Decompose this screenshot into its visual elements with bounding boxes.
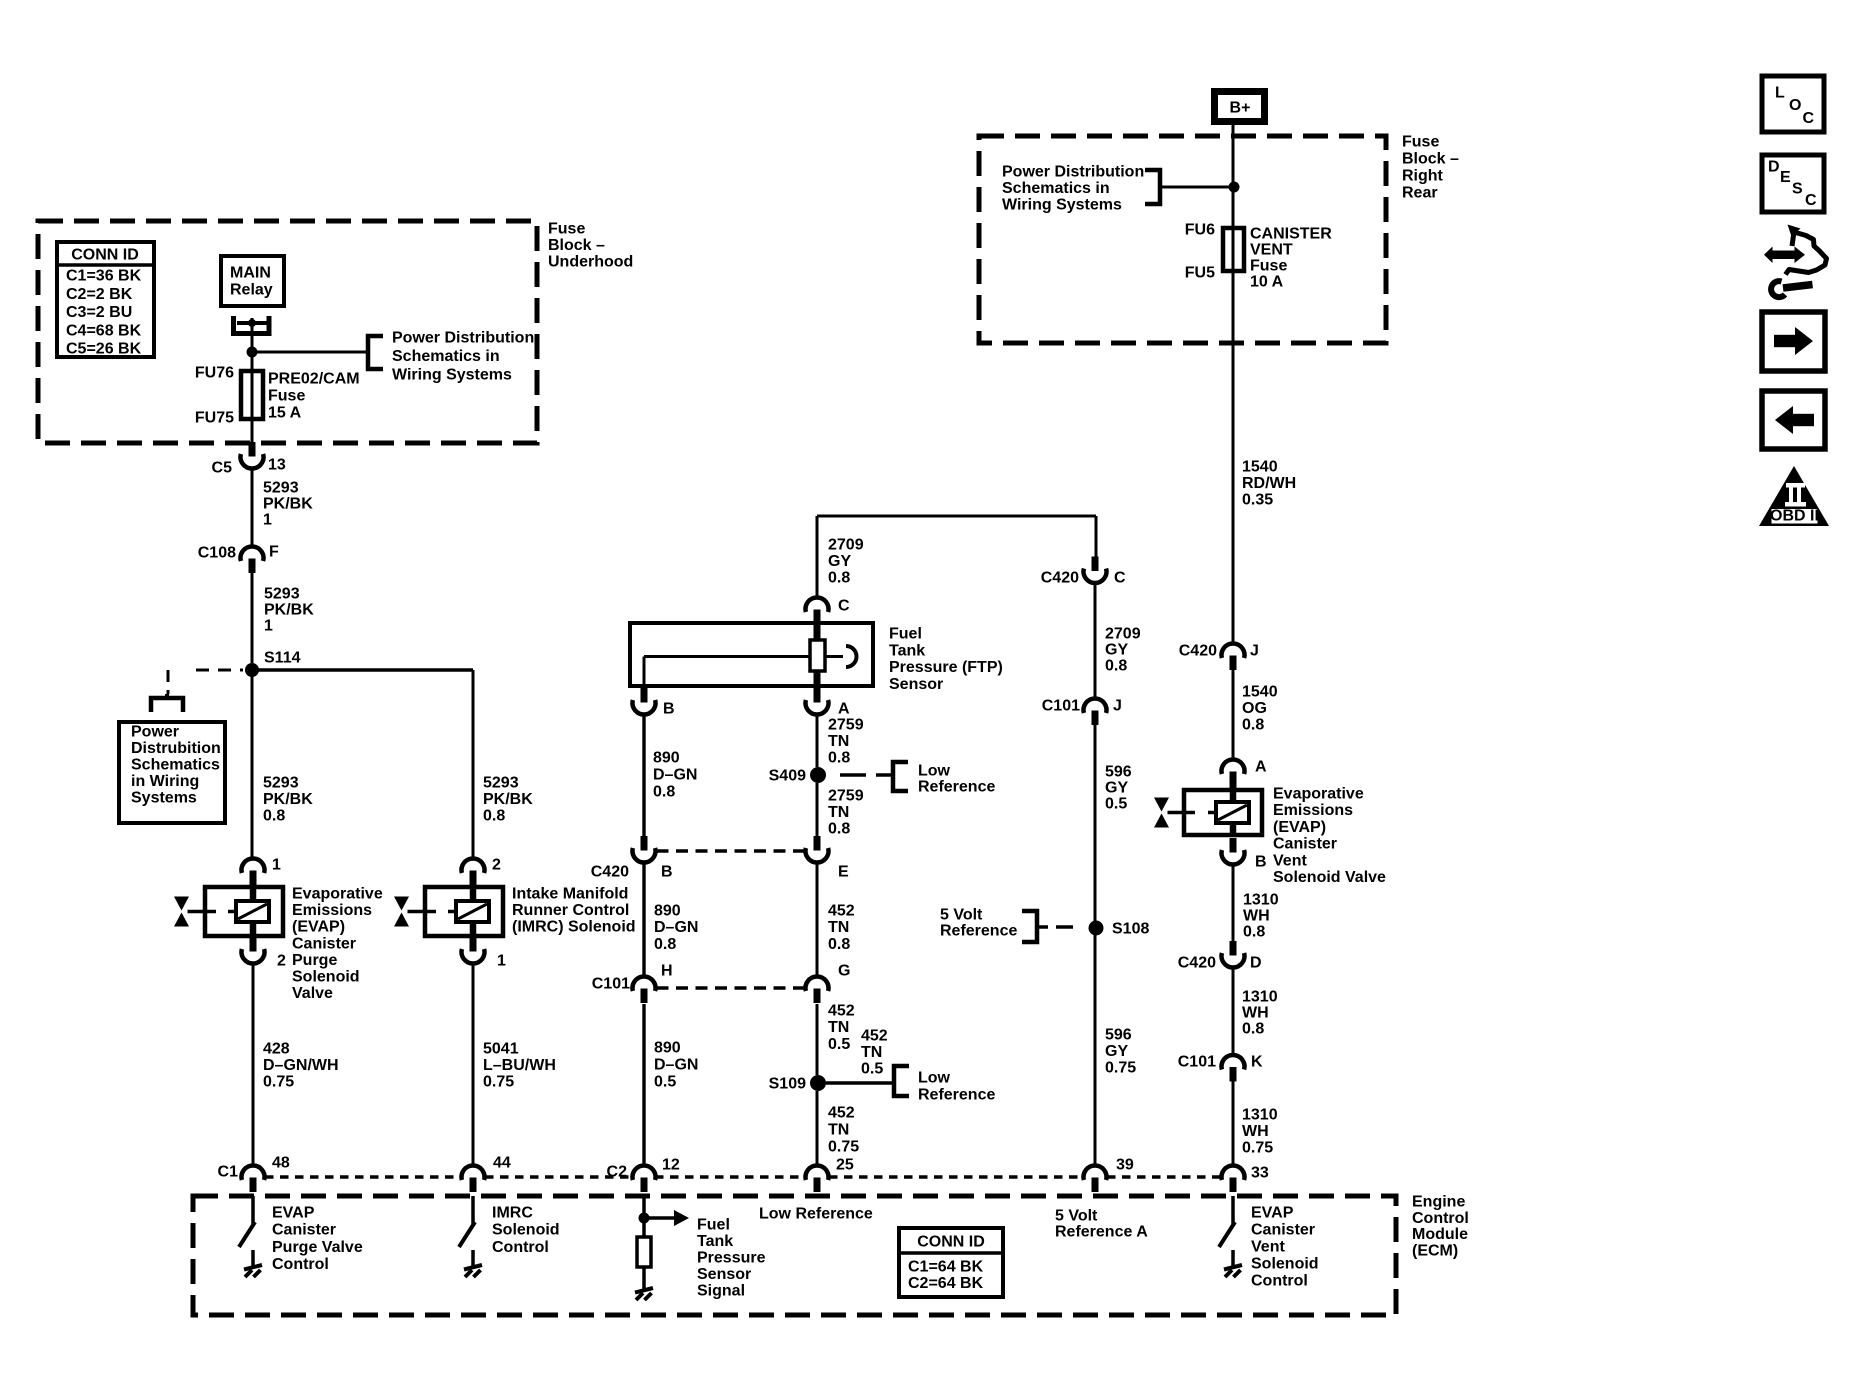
svg-text:Emissions: Emissions <box>1273 802 1353 819</box>
svg-text:D: D <box>1768 159 1780 176</box>
svg-text:0.8: 0.8 <box>828 821 850 838</box>
svg-text:1310: 1310 <box>1242 1107 1278 1124</box>
svg-text:Reference: Reference <box>918 779 995 796</box>
svg-text:1540: 1540 <box>1242 684 1278 701</box>
svg-text:428: 428 <box>263 1041 290 1058</box>
svg-text:890: 890 <box>653 750 680 767</box>
svg-text:1: 1 <box>497 953 506 970</box>
svg-text:1540: 1540 <box>1242 459 1278 476</box>
svg-text:C5=26 BK: C5=26 BK <box>66 341 142 358</box>
svg-text:Engine: Engine <box>1412 1194 1465 1211</box>
svg-text:Reference: Reference <box>918 1087 995 1104</box>
svg-text:0.5: 0.5 <box>1105 796 1127 813</box>
svg-text:G: G <box>838 963 850 980</box>
svg-text:WH: WH <box>1243 908 1270 925</box>
svg-text:Fuel: Fuel <box>889 626 922 643</box>
svg-text:TN: TN <box>828 1019 849 1036</box>
svg-text:0.8: 0.8 <box>653 784 675 801</box>
svg-text:S409: S409 <box>769 768 806 785</box>
svg-text:5293: 5293 <box>483 775 519 792</box>
svg-text:Solenoid: Solenoid <box>1251 1256 1319 1273</box>
svg-text:Reference: Reference <box>940 923 1017 940</box>
svg-text:5293: 5293 <box>264 586 300 603</box>
svg-text:TN: TN <box>828 733 849 750</box>
svg-text:WH: WH <box>1242 1123 1269 1140</box>
svg-text:O: O <box>1789 97 1801 114</box>
svg-text:0.8: 0.8 <box>1242 717 1264 734</box>
svg-text:5293: 5293 <box>263 480 299 497</box>
svg-text:C5: C5 <box>212 460 233 477</box>
svg-text:C101: C101 <box>1042 698 1080 715</box>
svg-text:Block –: Block – <box>548 237 605 254</box>
svg-text:C2=2 BK: C2=2 BK <box>66 286 133 303</box>
svg-text:0.8: 0.8 <box>1105 658 1127 675</box>
svg-text:0.8: 0.8 <box>263 808 285 825</box>
svg-text:0.8: 0.8 <box>828 570 850 587</box>
svg-text:0.8: 0.8 <box>483 808 505 825</box>
svg-text:1310: 1310 <box>1243 892 1279 909</box>
svg-text:1: 1 <box>263 512 272 529</box>
svg-text:(EVAP): (EVAP) <box>292 919 345 936</box>
svg-text:S109: S109 <box>769 1076 806 1093</box>
svg-text:GY: GY <box>1105 1043 1128 1060</box>
svg-text:GY: GY <box>1105 642 1128 659</box>
svg-text:E: E <box>838 864 849 881</box>
svg-text:Canister: Canister <box>292 935 356 952</box>
svg-text:Fuel: Fuel <box>697 1217 730 1234</box>
svg-text:Wiring Systems: Wiring Systems <box>392 367 512 384</box>
svg-text:EVAP: EVAP <box>1251 1205 1294 1222</box>
svg-text:48: 48 <box>272 1155 290 1172</box>
svg-text:TN: TN <box>828 1122 849 1139</box>
svg-text:PK/BK: PK/BK <box>264 602 314 619</box>
svg-text:2709: 2709 <box>1105 626 1141 643</box>
svg-text:2759: 2759 <box>828 788 864 805</box>
svg-text:IMRC: IMRC <box>492 1205 533 1222</box>
svg-text:25: 25 <box>836 1157 854 1174</box>
svg-text:596: 596 <box>1105 764 1132 781</box>
svg-text:C3=2 BU: C3=2 BU <box>66 304 132 321</box>
svg-text:Reference A: Reference A <box>1055 1224 1148 1241</box>
svg-text:Canister: Canister <box>272 1222 336 1239</box>
svg-text:452: 452 <box>828 1003 855 1020</box>
svg-text:0.75: 0.75 <box>263 1074 294 1091</box>
svg-text:890: 890 <box>654 903 681 920</box>
svg-text:0.8: 0.8 <box>828 936 850 953</box>
svg-text:5 Volt: 5 Volt <box>940 907 983 924</box>
svg-text:Control: Control <box>1251 1273 1308 1290</box>
svg-text:WH: WH <box>1242 1005 1269 1022</box>
svg-text:L: L <box>1775 85 1785 102</box>
svg-text:E: E <box>1780 169 1791 186</box>
svg-text:(EVAP): (EVAP) <box>1273 819 1326 836</box>
svg-text:0.75: 0.75 <box>1242 1140 1273 1157</box>
svg-text:Signal: Signal <box>697 1283 745 1300</box>
svg-text:D: D <box>1250 955 1262 972</box>
svg-text:Canister: Canister <box>1273 836 1337 853</box>
svg-text:FU75: FU75 <box>195 410 234 427</box>
svg-text:452: 452 <box>828 1105 855 1122</box>
svg-text:in Wiring: in Wiring <box>131 773 199 790</box>
svg-text:Solenoid: Solenoid <box>492 1222 560 1239</box>
svg-text:OBD II: OBD II <box>1770 508 1819 525</box>
svg-text:F: F <box>269 544 279 561</box>
svg-text:C: C <box>1805 192 1817 209</box>
svg-text:FU6: FU6 <box>1185 222 1215 239</box>
svg-text:GY: GY <box>1105 780 1128 797</box>
svg-text:Right: Right <box>1402 168 1444 185</box>
svg-text:(IMRC) Solenoid: (IMRC) Solenoid <box>512 919 636 936</box>
svg-text:Distrubition: Distrubition <box>131 740 221 757</box>
svg-text:C108: C108 <box>198 545 236 562</box>
svg-text:C420: C420 <box>1179 643 1217 660</box>
svg-text:Low: Low <box>918 763 951 780</box>
svg-text:0.35: 0.35 <box>1242 492 1273 509</box>
svg-text:452: 452 <box>861 1028 888 1045</box>
svg-text:Tank: Tank <box>889 642 925 659</box>
svg-text:PRE02/CAM: PRE02/CAM <box>268 371 360 388</box>
svg-text:C101: C101 <box>1178 1054 1216 1071</box>
svg-text:2: 2 <box>492 857 501 874</box>
svg-text:C1: C1 <box>218 1164 239 1181</box>
svg-text:C: C <box>838 598 850 615</box>
svg-text:0.75: 0.75 <box>1105 1060 1136 1077</box>
svg-text:Sensor: Sensor <box>889 676 943 693</box>
svg-text:33: 33 <box>1251 1165 1269 1182</box>
svg-text:Purge: Purge <box>292 952 337 969</box>
svg-text:1: 1 <box>272 857 281 874</box>
svg-text:Underhood: Underhood <box>548 254 633 271</box>
svg-text:OG: OG <box>1242 700 1267 717</box>
svg-text:0.8: 0.8 <box>654 936 676 953</box>
svg-text:D–GN: D–GN <box>654 1057 698 1074</box>
svg-text:2: 2 <box>277 953 286 970</box>
svg-text:Vent: Vent <box>1251 1239 1285 1256</box>
svg-text:B: B <box>661 864 673 881</box>
svg-text:12: 12 <box>662 1157 680 1174</box>
svg-text:C420: C420 <box>1178 955 1216 972</box>
svg-text:PK/BK: PK/BK <box>483 791 533 808</box>
svg-text:S108: S108 <box>1112 921 1149 938</box>
svg-text:0.8: 0.8 <box>1242 1021 1264 1038</box>
svg-text:GY: GY <box>828 553 851 570</box>
svg-text:39: 39 <box>1116 1157 1134 1174</box>
svg-text:Evaporative: Evaporative <box>1273 786 1364 803</box>
svg-text:0.8: 0.8 <box>828 750 850 767</box>
svg-text:Valve: Valve <box>292 985 333 1002</box>
svg-text:Schematics: Schematics <box>131 757 220 774</box>
svg-text:Fuse: Fuse <box>1250 258 1287 275</box>
svg-text:TN: TN <box>861 1044 882 1061</box>
svg-text:Schematics in: Schematics in <box>1002 180 1110 197</box>
svg-text:A: A <box>838 701 850 718</box>
svg-text:452: 452 <box>828 903 855 920</box>
svg-text:RD/WH: RD/WH <box>1242 475 1296 492</box>
svg-text:Schematics in: Schematics in <box>392 348 500 365</box>
svg-text:Low Reference: Low Reference <box>759 1206 873 1223</box>
svg-text:0.75: 0.75 <box>483 1074 514 1091</box>
svg-text:2759: 2759 <box>828 717 864 734</box>
svg-text:Control: Control <box>492 1239 549 1256</box>
svg-text:596: 596 <box>1105 1027 1132 1044</box>
svg-text:Solenoid Valve: Solenoid Valve <box>1273 869 1386 886</box>
svg-text:Relay: Relay <box>230 282 273 299</box>
svg-text:J: J <box>1113 698 1122 715</box>
svg-text:C: C <box>1803 110 1815 127</box>
svg-text:S114: S114 <box>264 650 301 667</box>
svg-text:13: 13 <box>268 457 286 474</box>
svg-text:PK/BK: PK/BK <box>263 496 313 513</box>
svg-text:Systems: Systems <box>131 790 197 807</box>
svg-text:C4=68 BK: C4=68 BK <box>66 322 142 339</box>
svg-text:B: B <box>1255 854 1267 871</box>
svg-text:TN: TN <box>828 804 849 821</box>
svg-text:Power: Power <box>131 724 179 741</box>
svg-text:H: H <box>661 963 673 980</box>
svg-text:Intake Manifold: Intake Manifold <box>512 886 628 903</box>
svg-text:B+: B+ <box>1230 100 1251 117</box>
svg-text:1: 1 <box>264 618 273 635</box>
svg-text:0.5: 0.5 <box>654 1074 676 1091</box>
svg-text:C1=36 BK: C1=36 BK <box>66 268 142 285</box>
svg-text:0.5: 0.5 <box>828 1036 850 1053</box>
svg-text:(ECM): (ECM) <box>1412 1242 1458 1259</box>
svg-text:L–BU/WH: L–BU/WH <box>483 1057 556 1074</box>
svg-text:MAIN: MAIN <box>230 265 271 282</box>
svg-text:J: J <box>1250 643 1259 660</box>
svg-text:Rear: Rear <box>1402 185 1438 202</box>
svg-text:D–GN: D–GN <box>654 919 698 936</box>
svg-text:Control: Control <box>272 1256 329 1273</box>
svg-text:Pressure (FTP): Pressure (FTP) <box>889 659 1003 676</box>
svg-text:C1=64 BK: C1=64 BK <box>908 1259 984 1276</box>
svg-text:Sensor: Sensor <box>697 1266 751 1283</box>
svg-text:5293: 5293 <box>263 775 299 792</box>
svg-text:Control: Control <box>1412 1210 1469 1227</box>
svg-text:Wiring Systems: Wiring Systems <box>1002 196 1122 213</box>
svg-text:0.8: 0.8 <box>1243 924 1265 941</box>
svg-text:CONN ID: CONN ID <box>917 1234 985 1251</box>
svg-text:0.5: 0.5 <box>861 1061 883 1078</box>
svg-text:5 Volt: 5 Volt <box>1055 1208 1098 1225</box>
svg-text:5041: 5041 <box>483 1041 519 1058</box>
svg-text:PK/BK: PK/BK <box>263 791 313 808</box>
svg-text:S: S <box>1792 181 1803 198</box>
svg-text:FU76: FU76 <box>195 365 234 382</box>
svg-text:CONN ID: CONN ID <box>71 247 139 264</box>
svg-text:Low: Low <box>918 1070 951 1087</box>
svg-text:Module: Module <box>1412 1226 1468 1243</box>
svg-text:K: K <box>1251 1054 1263 1071</box>
svg-text:VENT: VENT <box>1250 242 1293 259</box>
svg-text:44: 44 <box>493 1155 511 1172</box>
svg-text:1310: 1310 <box>1242 989 1278 1006</box>
svg-text:Solenoid: Solenoid <box>292 969 360 986</box>
svg-text:D–GN: D–GN <box>653 767 697 784</box>
svg-text:0.75: 0.75 <box>828 1139 859 1156</box>
svg-text:C101: C101 <box>592 976 630 993</box>
svg-text:FU5: FU5 <box>1185 265 1215 282</box>
svg-text:C2=64 BK: C2=64 BK <box>908 1275 984 1292</box>
svg-text:TN: TN <box>828 919 849 936</box>
svg-text:Block –: Block – <box>1402 151 1459 168</box>
svg-text:Power Distribution: Power Distribution <box>1002 164 1144 181</box>
svg-text:10 A: 10 A <box>1250 274 1284 291</box>
svg-text:EVAP: EVAP <box>272 1205 315 1222</box>
svg-text:Tank: Tank <box>697 1233 733 1250</box>
svg-text:Pressure: Pressure <box>697 1250 766 1267</box>
svg-text:2709: 2709 <box>828 537 864 554</box>
svg-text:C420: C420 <box>1041 570 1079 587</box>
svg-text:Vent: Vent <box>1273 852 1307 869</box>
svg-text:C: C <box>1114 570 1126 587</box>
svg-text:CANISTER: CANISTER <box>1250 226 1332 243</box>
svg-text:Runner Control: Runner Control <box>512 902 629 919</box>
svg-text:C2: C2 <box>607 1164 628 1181</box>
svg-text:Power Distribution: Power Distribution <box>392 330 534 347</box>
svg-text:Fuse: Fuse <box>548 221 585 238</box>
svg-text:Evaporative: Evaporative <box>292 886 383 903</box>
svg-text:D–GN/WH: D–GN/WH <box>263 1057 339 1074</box>
svg-text:B: B <box>663 701 675 718</box>
svg-text:Canister: Canister <box>1251 1222 1315 1239</box>
svg-text:15 A: 15 A <box>268 405 302 422</box>
svg-text:Purge Valve: Purge Valve <box>272 1239 363 1256</box>
svg-text:C420: C420 <box>591 864 629 881</box>
svg-text:890: 890 <box>654 1040 681 1057</box>
svg-text:Emissions: Emissions <box>292 902 372 919</box>
svg-text:Fuse: Fuse <box>268 388 305 405</box>
svg-text:A: A <box>1255 759 1267 776</box>
svg-text:Fuse: Fuse <box>1402 134 1439 151</box>
